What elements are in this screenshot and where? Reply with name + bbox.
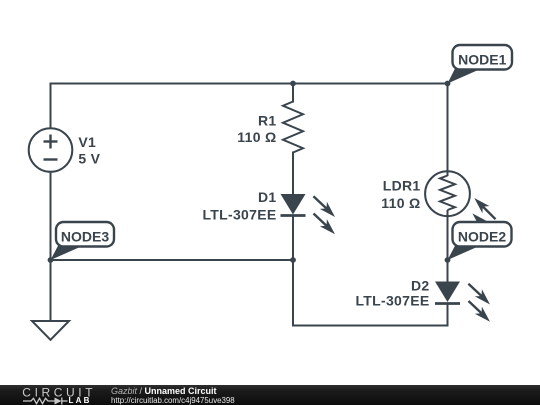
svg-text:NODE3: NODE3	[61, 228, 109, 244]
D1 labels	[202, 189, 276, 222]
junction dot NODE2	[445, 257, 451, 263]
wire left vertical upper	[50, 84, 52, 129]
V1 labels	[78, 134, 100, 166]
svg-text:http://circuitlab.com/c4j9475u: http://circuitlab.com/c4j9475uve398	[111, 396, 235, 405]
node NODE1 label	[448, 45, 513, 84]
svg-text:LDR1: LDR1	[383, 178, 421, 194]
svg-text:LAB: LAB	[69, 396, 92, 405]
wire D1 cathode down	[292, 216, 294, 326]
wire mid horizontal	[51, 259, 294, 261]
svg-text:R1: R1	[258, 112, 277, 128]
wire D2 cathode down	[447, 304, 449, 326]
voltage source V1	[29, 128, 73, 172]
wire bottom horizontal	[293, 325, 448, 327]
svg-text:LTL-307EE: LTL-307EE	[355, 293, 429, 309]
D2 light arrows	[468, 284, 481, 296]
wire D2 anode up to NODE2	[447, 260, 449, 282]
wire LDR bottom to NODE2	[447, 216, 449, 260]
wire left vertical lower	[50, 172, 52, 321]
wire NODE1 down to LDR	[447, 84, 449, 177]
D1 light arrows	[313, 196, 326, 208]
svg-text:Gazbit / Unnamed Circuit: Gazbit / Unnamed Circuit	[111, 386, 217, 396]
svg-text:NODE2: NODE2	[458, 228, 506, 244]
node NODE2 label	[448, 222, 512, 260]
svg-text:5 V: 5 V	[78, 150, 100, 166]
svg-text:110 Ω: 110 Ω	[381, 195, 420, 211]
junction dot NODE3	[48, 257, 54, 263]
photoresistor LDR1	[425, 171, 470, 216]
LDR1 labels	[381, 178, 420, 211]
CircuitLab logo	[22, 385, 96, 405]
footer bar	[0, 385, 540, 405]
node NODE3 label	[51, 222, 115, 260]
svg-text:V1: V1	[78, 134, 96, 150]
wire top horizontal	[51, 83, 448, 85]
svg-text:LTL-307EE: LTL-307EE	[202, 206, 276, 222]
junction dot R1 top	[290, 81, 296, 87]
footer title text	[111, 386, 235, 405]
junction dot mid	[290, 257, 296, 263]
ground	[32, 321, 69, 340]
wire LDR inner bottom stub	[447, 210, 449, 216]
wire R1 top stub	[292, 84, 294, 102]
LDR1 light arrows	[472, 198, 495, 235]
junction dot NODE1	[445, 81, 451, 87]
wire R1 to D1	[292, 153, 294, 195]
svg-text:D2: D2	[411, 277, 430, 293]
LED D1	[281, 194, 336, 234]
svg-text:D1: D1	[258, 189, 277, 205]
svg-text:NODE1: NODE1	[458, 51, 506, 67]
LED D2	[435, 282, 490, 322]
D2 labels	[355, 277, 429, 308]
R1 labels	[237, 112, 276, 145]
resistor R1	[283, 102, 303, 153]
svg-text:110 Ω: 110 Ω	[237, 129, 276, 145]
